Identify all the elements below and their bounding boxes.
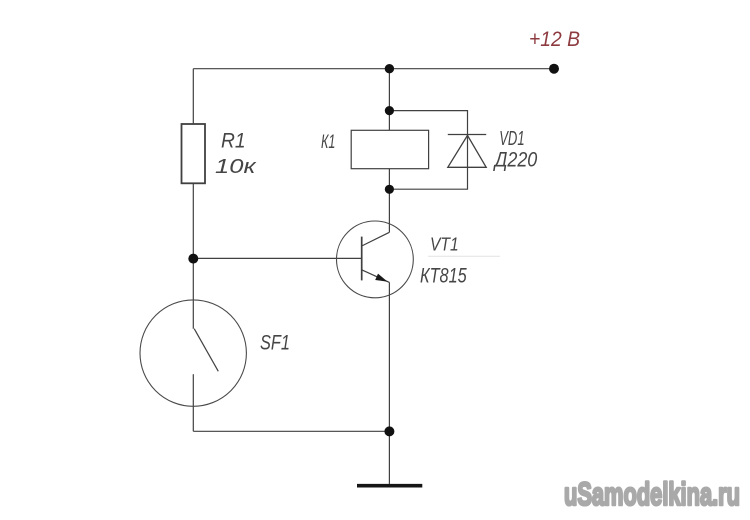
svg-text:SF1: SF1 <box>260 332 290 355</box>
svg-text:Д220: Д220 <box>493 149 538 172</box>
svg-text:uSamodelkina.ru: uSamodelkina.ru <box>564 476 740 512</box>
svg-text:R1: R1 <box>221 130 246 153</box>
svg-text:КТ815: КТ815 <box>420 263 467 287</box>
svg-text:VT1: VT1 <box>430 233 459 254</box>
svg-text:+12 В: +12 В <box>529 28 580 51</box>
svg-text:VD1: VD1 <box>499 127 524 150</box>
svg-text:К1: К1 <box>321 132 335 153</box>
svg-text:10к: 10к <box>215 156 258 178</box>
